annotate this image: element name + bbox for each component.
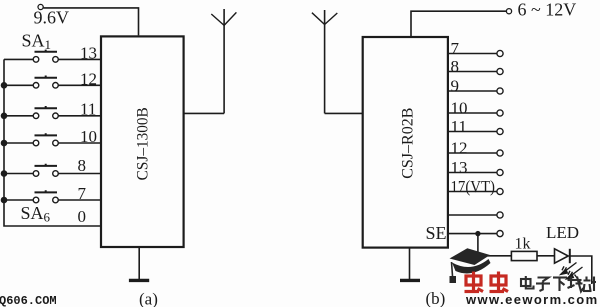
pin 10 wire: [448, 112, 497, 114]
svg-text:7: 7: [451, 39, 460, 58]
svg-text:(b): (b): [426, 289, 446, 307]
switch row 8: [1, 164, 101, 177]
wire 9.6V to IC1 top: [43, 8, 138, 36]
LED D1: [555, 249, 592, 284]
power terminal 6~12V: [506, 9, 511, 14]
svg-text:Q606.COM: Q606.COM: [0, 294, 57, 307]
svg-text:CSJ–1300B: CSJ–1300B: [135, 107, 152, 180]
LED arrows: [561, 263, 583, 283]
pin 12 wire: [448, 152, 497, 154]
pin 9 wire: [448, 90, 497, 92]
watermark char zi: [536, 278, 550, 292]
watermark graduation cap: [450, 248, 491, 283]
svg-text:8: 8: [451, 57, 460, 76]
switch row 11: [1, 106, 101, 119]
svg-text:9.6V: 9.6V: [34, 8, 70, 28]
svg-text:LED: LED: [546, 223, 579, 242]
watermark char dian: [521, 276, 534, 289]
svg-text:7: 7: [78, 184, 87, 203]
IC U1 CSJ-1300B: [101, 36, 184, 247]
svg-text:SE: SE: [425, 223, 446, 243]
ground left: [129, 247, 149, 280]
pin SE wire: [448, 233, 497, 235]
svg-text:(a): (a): [139, 290, 158, 307]
svg-text:9: 9: [451, 77, 460, 96]
svg-text:6 ~ 12V: 6 ~ 12V: [518, 0, 577, 20]
svg-text:8: 8: [78, 156, 87, 175]
pin 17(VT) wire: [448, 191, 497, 193]
watermark bug char 2: [490, 272, 509, 292]
resistor R1 1k: [511, 251, 537, 260]
svg-text:12: 12: [80, 69, 97, 88]
watermark char xia: [553, 278, 567, 292]
antenna E1 left: [184, 9, 237, 113]
wire resistor to LED: [537, 255, 555, 257]
svg-text:12: 12: [451, 139, 468, 158]
IC U2 CSJ-R02B: [363, 37, 448, 248]
power terminal 9.6V: [38, 4, 43, 9]
switch row 10: [1, 133, 101, 146]
svg-text:11: 11: [451, 117, 467, 136]
svg-text:10: 10: [451, 99, 468, 118]
ground right: [400, 248, 420, 281]
unlabeled pin wire: [448, 214, 497, 216]
watermark bug char 1: [465, 272, 484, 292]
pin 8 wire: [448, 71, 497, 73]
svg-text:1k: 1k: [515, 236, 531, 253]
svg-text:10: 10: [80, 127, 97, 146]
svg-text:17(VT): 17(VT): [451, 177, 496, 196]
svg-text:0: 0: [78, 207, 87, 226]
watermark char zai: [568, 277, 584, 292]
switch row 12: [1, 76, 101, 89]
svg-text:CSJ–R02B: CSJ–R02B: [400, 108, 417, 179]
svg-text:www.eeworm.com: www.eeworm.com: [465, 292, 599, 307]
wire SE to resistor: [478, 234, 512, 256]
antenna E2 right: [312, 10, 363, 113]
bus left: [4, 59, 101, 226]
wire IC2 to 6~12V: [411, 11, 506, 37]
pin 13 wire: [448, 172, 497, 174]
svg-text:13: 13: [80, 43, 97, 62]
pin 11 wire: [448, 131, 497, 133]
switch SA1 row 13: [4, 50, 101, 63]
svg-text:13: 13: [451, 158, 468, 177]
svg-text:11: 11: [80, 99, 96, 118]
switch SA6 row 7: [1, 190, 101, 203]
node SE junction: [475, 231, 480, 236]
pin 7 wire: [448, 53, 497, 55]
watermark char zhan: [583, 277, 596, 292]
